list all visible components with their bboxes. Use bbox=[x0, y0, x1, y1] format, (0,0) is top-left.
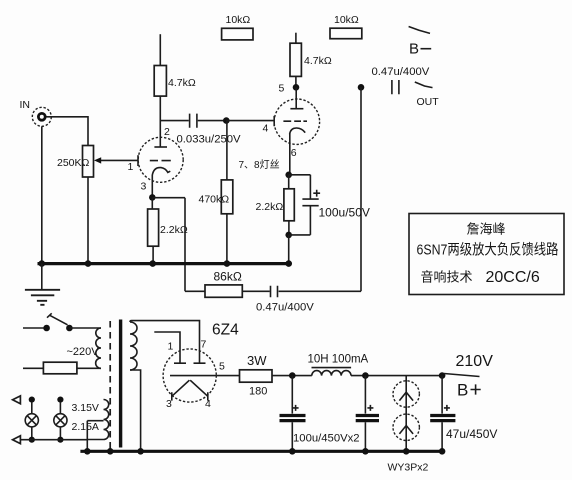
svg-text:1: 1 bbox=[168, 341, 174, 353]
node cathode bottom bbox=[285, 232, 292, 239]
resistor R4 4.7k plate load bbox=[290, 43, 301, 76]
regulator tube VR1 WY3P bbox=[393, 376, 419, 412]
node rail R2 bbox=[149, 260, 156, 267]
lamp DS2 bbox=[54, 402, 67, 440]
wire heater ground drop bbox=[86, 421, 88, 452]
wire HT top to plate 7 bbox=[130, 321, 200, 363]
triode V1b bbox=[274, 99, 319, 144]
wire feedback vertical bbox=[360, 87, 362, 291]
capacitor C6 100u/450V bbox=[356, 376, 379, 452]
svg-text:6SN7两级放大负反馈线路: 6SN7两级放大负反馈线路 bbox=[417, 242, 559, 259]
capacitor C5 100u/450V bbox=[280, 376, 306, 452]
wire V1a cathode to feedback bbox=[152, 198, 185, 292]
svg-text:OUT: OUT bbox=[417, 96, 440, 108]
svg-text:2.15A: 2.15A bbox=[72, 421, 99, 433]
resistor R8 10k bbox=[330, 28, 362, 39]
plus mark C6 bbox=[367, 405, 373, 411]
svg-text:~220V: ~220V bbox=[67, 346, 100, 358]
plus mark C7 bbox=[444, 405, 450, 411]
capacitor C2 100u/50V bypass bbox=[289, 175, 319, 235]
node rail R3 bbox=[224, 260, 231, 267]
node cap2 bbox=[362, 372, 369, 379]
svg-text:4.7kΩ: 4.7kΩ bbox=[168, 77, 196, 89]
V1a plate bar bbox=[154, 146, 167, 148]
transformer T1 heater winding bbox=[104, 400, 109, 440]
node rail core bbox=[107, 448, 114, 455]
resistor R3 470k grid leak bbox=[221, 121, 233, 263]
terminal heater top bbox=[13, 396, 21, 404]
wire switch to primary bbox=[69, 327, 101, 329]
svg-text:6Z4: 6Z4 bbox=[212, 322, 239, 339]
svg-text:10H 100mA: 10H 100mA bbox=[308, 354, 369, 366]
resistor R6 86k feedback bbox=[205, 285, 242, 297]
node plate V1b bbox=[293, 84, 300, 91]
wire R1 to plate bbox=[159, 96, 161, 147]
wire cap to node bbox=[198, 120, 227, 122]
svg-text:10kΩ: 10kΩ bbox=[226, 14, 251, 26]
wire AC line bottom bbox=[23, 367, 43, 369]
svg-text:5: 5 bbox=[279, 83, 285, 95]
plus mark C5 bbox=[293, 405, 299, 411]
V1b cathode bbox=[290, 128, 306, 134]
svg-text:180: 180 bbox=[249, 386, 267, 398]
resistor R7 10k bbox=[222, 28, 253, 40]
node coupling junction bbox=[223, 117, 230, 124]
svg-text:0.47u/400V: 0.47u/400V bbox=[256, 302, 314, 314]
transformer T1 HT secondary bbox=[130, 322, 137, 370]
wire feedback bottom to cap bbox=[279, 290, 361, 292]
terminal heater bottom bbox=[13, 436, 21, 444]
rectifier 6Z4 V2 bbox=[163, 349, 216, 402]
node lamp1 top bbox=[29, 397, 35, 403]
resistor R1 4.7k plate load bbox=[154, 66, 166, 97]
wire V1b cathode lead bbox=[289, 134, 291, 175]
svg-text:B: B bbox=[409, 41, 419, 58]
power ground rail bbox=[80, 450, 443, 453]
B- terminal tick bbox=[409, 27, 430, 34]
wire R4 to plate node bbox=[295, 76, 297, 87]
svg-text:WY3Px2: WY3Px2 bbox=[388, 462, 429, 474]
node cap1 bbox=[289, 372, 296, 379]
resistor R2 2.2k cathode V1a bbox=[148, 197, 159, 262]
svg-text:3: 3 bbox=[141, 181, 147, 193]
node lamp1 bottom bbox=[29, 437, 35, 443]
svg-text:IN: IN bbox=[20, 99, 31, 111]
potentiometer 250K bbox=[83, 146, 94, 178]
svg-text:20CC/6: 20CC/6 bbox=[486, 269, 540, 286]
ground symbol bbox=[25, 264, 60, 305]
capacitor C4 0.47u/400V output bbox=[392, 80, 399, 94]
regulator tube VR2 WY3P bbox=[393, 412, 419, 452]
wire plate to coupling cap bbox=[160, 120, 189, 122]
node rail V1b cathode bbox=[285, 260, 292, 267]
wire jack to pot top bbox=[47, 117, 89, 146]
node rail C6 bbox=[362, 448, 369, 455]
input jack J1 bbox=[32, 107, 51, 126]
wire node to grid V1b bbox=[226, 116, 274, 126]
node rail HT return bbox=[137, 448, 144, 455]
svg-text:2.2kΩ: 2.2kΩ bbox=[160, 224, 188, 236]
wire heater bottom row bbox=[21, 439, 87, 441]
wire 6Z4 cathode to R9 bbox=[216, 375, 239, 377]
node lamp2 bottom bbox=[57, 437, 63, 443]
switch S1 bbox=[43, 313, 72, 331]
node rail pot bbox=[85, 260, 92, 267]
V1b grid dashes bbox=[283, 120, 307, 122]
svg-text:0.47u/400V: 0.47u/400V bbox=[372, 66, 430, 78]
wire V1a cathode lead bbox=[151, 175, 153, 198]
svg-text:470kΩ: 470kΩ bbox=[199, 194, 230, 206]
svg-text:1: 1 bbox=[128, 161, 134, 173]
triode V1a bbox=[138, 137, 183, 182]
svg-text:4.7kΩ: 4.7kΩ bbox=[304, 55, 332, 67]
svg-text:5: 5 bbox=[219, 361, 225, 373]
wire heater tap bbox=[87, 420, 103, 422]
svg-text:3.15V: 3.15V bbox=[72, 402, 99, 414]
svg-text:4: 4 bbox=[205, 398, 211, 410]
wire choke to B+ bbox=[351, 375, 442, 377]
wire R9 to choke bbox=[272, 375, 312, 377]
wire AC line top bbox=[23, 327, 47, 329]
ground rail bbox=[38, 262, 292, 265]
node feedback top bbox=[358, 84, 365, 91]
node cathode V1a bbox=[149, 194, 156, 201]
node lamp2 top bbox=[57, 397, 63, 403]
svg-text:210V: 210V bbox=[456, 353, 494, 370]
svg-text:100u/450Vx2: 100u/450Vx2 bbox=[293, 433, 360, 445]
pot wiper arrow bbox=[94, 155, 138, 166]
resistor R9 180 3W bbox=[240, 370, 273, 382]
transformer core dashed bbox=[109, 321, 111, 449]
svg-text:4: 4 bbox=[263, 123, 269, 135]
svg-text:7: 7 bbox=[201, 339, 207, 351]
capacitor C1 0.033u/250V bbox=[190, 114, 197, 128]
wire cathode to ground rail bbox=[288, 235, 290, 263]
wire R6 to cathode branch bbox=[185, 290, 205, 292]
node cathode V1b bbox=[285, 172, 292, 179]
svg-text:0.033u/250V: 0.033u/250V bbox=[177, 134, 242, 146]
capacitor C7 47u/450V bbox=[430, 376, 455, 452]
svg-text:7、8灯丝: 7、8灯丝 bbox=[239, 159, 280, 171]
transformer T1 primary winding bbox=[96, 328, 101, 368]
svg-text:86kΩ: 86kΩ bbox=[214, 270, 242, 284]
wire B+ stub above R1 bbox=[159, 34, 161, 65]
node rail heater bbox=[84, 448, 91, 455]
wire B+ stub above R4 bbox=[295, 33, 297, 44]
wire heater bottom end bbox=[87, 439, 103, 441]
wire fuse to primary bbox=[77, 367, 101, 369]
V2 plate bars bbox=[174, 362, 206, 364]
svg-text:2: 2 bbox=[164, 126, 170, 138]
node rail jack bbox=[39, 260, 46, 267]
svg-text:B: B bbox=[457, 381, 468, 400]
svg-text:6: 6 bbox=[291, 147, 297, 159]
svg-text:詹海峰: 詹海峰 bbox=[467, 222, 506, 237]
svg-text:10kΩ: 10kΩ bbox=[334, 14, 359, 26]
resistor R5 2.2k cathode V1b bbox=[284, 175, 294, 235]
wire plate 1 bbox=[154, 332, 180, 363]
wire node to plate bbox=[295, 87, 297, 108]
svg-text:音响技术: 音响技术 bbox=[421, 270, 473, 285]
V1a grid dashes bbox=[150, 160, 171, 162]
wire cap to R6 bbox=[242, 290, 269, 292]
V2 filament bbox=[172, 380, 208, 400]
V2 cathode line bbox=[170, 375, 216, 377]
B+ leader line bbox=[444, 374, 480, 377]
node rail VR2 bbox=[403, 448, 410, 455]
title box bbox=[409, 214, 564, 295]
svg-text:3W: 3W bbox=[247, 353, 267, 368]
wire jack to ground rail bbox=[41, 126, 43, 262]
node rail C7 bbox=[439, 448, 446, 455]
choke L1 10H 100mA bbox=[312, 368, 352, 376]
fuse F1 bbox=[43, 362, 77, 374]
svg-text:3: 3 bbox=[166, 398, 172, 410]
wire HT bottom to rail bbox=[130, 370, 141, 451]
wire pot bottom to ground rail bbox=[87, 177, 89, 263]
node cap3 B+ bbox=[439, 372, 446, 379]
svg-text:2.2kΩ: 2.2kΩ bbox=[256, 201, 284, 213]
OUT terminal tick bbox=[415, 82, 433, 88]
svg-text:250KΩ: 250KΩ bbox=[57, 157, 90, 169]
V1b plate bar bbox=[290, 108, 303, 110]
V1a cathode bbox=[152, 168, 170, 175]
svg-text:100u/50V: 100u/50V bbox=[319, 206, 370, 220]
lamp DS1 bbox=[25, 402, 38, 440]
svg-text:47u/450V: 47u/450V bbox=[446, 427, 497, 441]
transformer core solid bbox=[119, 320, 122, 448]
plus polarity mark bbox=[313, 190, 320, 197]
capacitor C3 0.47u/400V feedback bbox=[271, 286, 278, 298]
node rail C5 bbox=[289, 448, 296, 455]
